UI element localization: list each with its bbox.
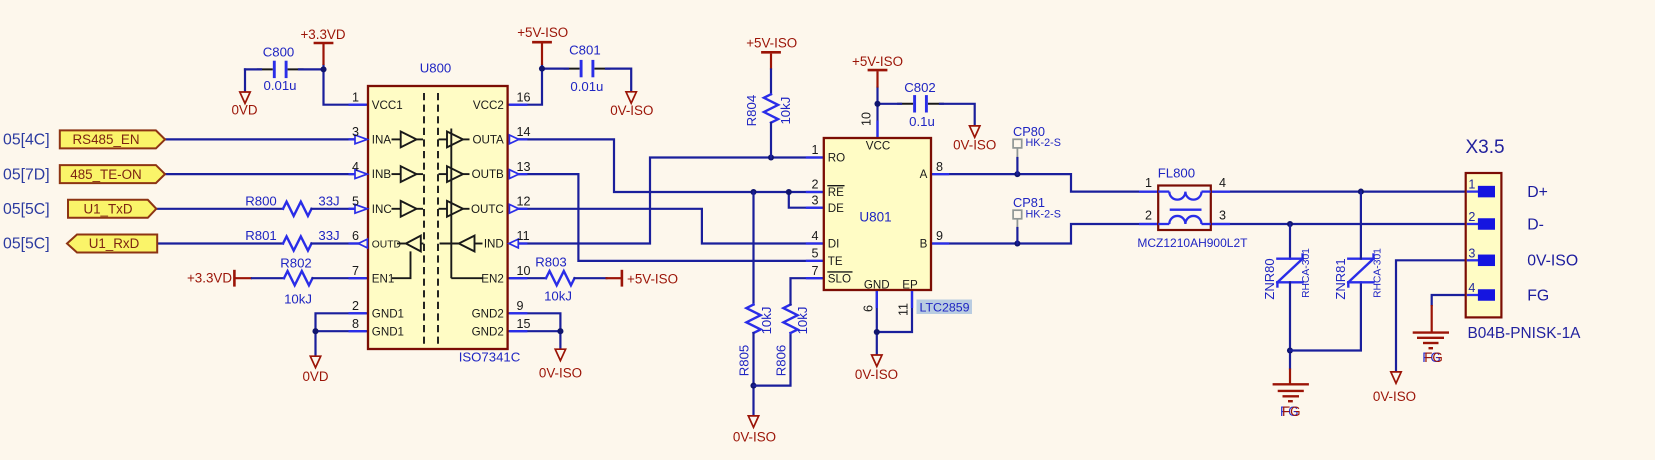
svg-text:4: 4: [1468, 281, 1475, 295]
svg-text:ZNR80: ZNR80: [1262, 258, 1277, 299]
svg-text:+3.3VD: +3.3VD: [300, 27, 345, 42]
svg-text:+5V-ISO: +5V-ISO: [746, 36, 797, 51]
svg-text:A: A: [920, 168, 928, 181]
svg-text:C801: C801: [569, 43, 601, 58]
svg-text:4: 4: [1219, 176, 1226, 190]
svg-text:6: 6: [862, 305, 876, 312]
svg-text:OUTA: OUTA: [472, 134, 504, 147]
svg-text:DI: DI: [828, 238, 840, 251]
svg-text:10kJ: 10kJ: [544, 289, 572, 304]
svg-text:C802: C802: [904, 80, 936, 95]
svg-text:2: 2: [811, 178, 818, 192]
svg-text:U800: U800: [420, 61, 452, 76]
svg-text:SLO: SLO: [828, 272, 851, 285]
svg-text:RHCA-301: RHCA-301: [1301, 248, 1312, 298]
svg-text:RO: RO: [828, 152, 845, 165]
svg-text:R806: R806: [774, 345, 789, 377]
svg-text:10kJ: 10kJ: [778, 97, 793, 125]
svg-text:05[5C]: 05[5C]: [3, 201, 50, 218]
svg-text:0.01u: 0.01u: [263, 78, 296, 93]
svg-text:FG: FG: [1282, 404, 1301, 419]
svg-text:+5V-ISO: +5V-ISO: [517, 25, 568, 40]
svg-text:0VD: 0VD: [231, 103, 257, 118]
svg-text:485_TE-ON: 485_TE-ON: [70, 167, 141, 182]
svg-text:C800: C800: [263, 45, 295, 60]
svg-text:OUTD: OUTD: [372, 239, 401, 250]
svg-text:7: 7: [352, 264, 359, 278]
svg-text:+5V-ISO: +5V-ISO: [627, 272, 678, 287]
svg-text:LTC2859: LTC2859: [920, 300, 970, 314]
svg-text:GND: GND: [864, 279, 890, 292]
svg-text:D-: D-: [1527, 216, 1544, 233]
svg-text:5: 5: [811, 247, 818, 261]
svg-text:0VD: 0VD: [302, 369, 328, 384]
svg-text:10kJ: 10kJ: [284, 292, 312, 307]
svg-text:9: 9: [936, 229, 943, 243]
svg-text:DE: DE: [828, 202, 844, 215]
svg-text:U1_RxD: U1_RxD: [89, 236, 140, 251]
svg-text:3: 3: [811, 193, 818, 207]
svg-text:11: 11: [897, 303, 911, 316]
svg-text:R802: R802: [280, 256, 312, 271]
svg-text:0V-ISO: 0V-ISO: [855, 367, 898, 382]
svg-text:5: 5: [352, 195, 359, 209]
svg-text:INB: INB: [372, 168, 392, 181]
svg-text:FG: FG: [1527, 287, 1549, 304]
svg-text:3: 3: [1219, 208, 1226, 222]
svg-text:10kJ: 10kJ: [759, 307, 774, 335]
svg-text:INC: INC: [372, 203, 392, 216]
svg-text:GND1: GND1: [372, 325, 404, 338]
svg-text:2: 2: [1145, 208, 1152, 222]
svg-text:R800: R800: [245, 194, 277, 209]
svg-text:FG: FG: [1424, 350, 1443, 365]
svg-text:GND2: GND2: [472, 307, 504, 320]
svg-text:7: 7: [811, 264, 818, 278]
svg-text:1: 1: [352, 90, 359, 104]
svg-text:VCC1: VCC1: [372, 99, 403, 112]
svg-text:GND2: GND2: [472, 325, 504, 338]
svg-text:TE: TE: [828, 255, 843, 268]
svg-text:10: 10: [860, 112, 874, 126]
svg-text:VCC2: VCC2: [473, 99, 504, 112]
svg-text:R803: R803: [535, 255, 567, 270]
svg-text:OUTB: OUTB: [472, 168, 504, 181]
svg-text:3: 3: [1468, 246, 1475, 260]
svg-text:8: 8: [936, 160, 943, 174]
svg-text:14: 14: [517, 125, 531, 139]
svg-text:0V-ISO: 0V-ISO: [1373, 389, 1416, 404]
svg-text:+3.3VD: +3.3VD: [187, 271, 232, 286]
svg-text:4: 4: [352, 160, 359, 174]
svg-text:0V-ISO: 0V-ISO: [1527, 253, 1578, 270]
svg-text:1: 1: [1145, 176, 1152, 190]
svg-text:R805: R805: [737, 345, 752, 377]
svg-text:0.1u: 0.1u: [909, 114, 935, 129]
svg-text:0V-ISO: 0V-ISO: [953, 138, 996, 153]
svg-text:1: 1: [1468, 178, 1475, 192]
svg-text:1: 1: [811, 143, 818, 157]
svg-text:EN2: EN2: [481, 272, 504, 285]
svg-text:33J: 33J: [318, 194, 339, 209]
svg-text:R801: R801: [245, 228, 277, 243]
svg-text:RE: RE: [828, 186, 844, 199]
svg-text:0.01u: 0.01u: [570, 79, 603, 94]
svg-text:12: 12: [517, 195, 531, 209]
svg-text:3: 3: [352, 125, 359, 139]
svg-text:HK-2-S: HK-2-S: [1026, 208, 1061, 220]
svg-text:GND1: GND1: [372, 307, 404, 320]
svg-text:10kJ: 10kJ: [795, 307, 810, 335]
svg-text:B04B-PNISK-1A: B04B-PNISK-1A: [1468, 325, 1582, 342]
svg-text:IND: IND: [484, 238, 504, 251]
svg-text:U1_TxD: U1_TxD: [83, 202, 132, 217]
svg-text:ZNR81: ZNR81: [1333, 258, 1348, 299]
svg-text:05[5C]: 05[5C]: [3, 236, 50, 253]
svg-text:6: 6: [352, 229, 359, 243]
svg-text:FL800: FL800: [1158, 165, 1195, 180]
svg-text:15: 15: [517, 317, 531, 331]
svg-text:B: B: [920, 238, 928, 251]
svg-text:9: 9: [517, 299, 524, 313]
svg-text:0V-ISO: 0V-ISO: [539, 366, 582, 381]
svg-text:05[4C]: 05[4C]: [3, 132, 50, 149]
svg-text:4: 4: [811, 229, 818, 243]
svg-text:+5V-ISO: +5V-ISO: [852, 54, 903, 69]
svg-text:MCZ1210AH900L2T: MCZ1210AH900L2T: [1137, 236, 1248, 250]
svg-text:ISO7341C: ISO7341C: [459, 350, 521, 365]
svg-text:R804: R804: [744, 95, 759, 127]
svg-text:OUTC: OUTC: [471, 203, 504, 216]
svg-text:10: 10: [517, 264, 531, 278]
svg-text:U801: U801: [859, 210, 891, 225]
svg-text:13: 13: [517, 160, 531, 174]
svg-text:INA: INA: [372, 134, 392, 147]
svg-text:0V-ISO: 0V-ISO: [610, 103, 653, 118]
svg-text:8: 8: [352, 317, 359, 331]
svg-text:33J: 33J: [318, 228, 339, 243]
svg-text:0V-ISO: 0V-ISO: [733, 430, 776, 445]
svg-text:16: 16: [517, 90, 531, 104]
svg-text:RS485_EN: RS485_EN: [73, 132, 140, 147]
svg-text:05[7D]: 05[7D]: [3, 166, 50, 183]
svg-text:EN1: EN1: [372, 272, 395, 285]
svg-text:D+: D+: [1527, 184, 1548, 201]
svg-text:2: 2: [352, 299, 359, 313]
svg-text:X3.5: X3.5: [1466, 137, 1505, 158]
svg-text:RHCA-301: RHCA-301: [1373, 248, 1384, 298]
svg-text:EP: EP: [902, 279, 918, 292]
svg-text:2: 2: [1468, 210, 1475, 224]
svg-text:11: 11: [517, 229, 530, 243]
svg-text:HK-2-S: HK-2-S: [1026, 137, 1061, 149]
svg-text:VCC: VCC: [866, 140, 890, 153]
